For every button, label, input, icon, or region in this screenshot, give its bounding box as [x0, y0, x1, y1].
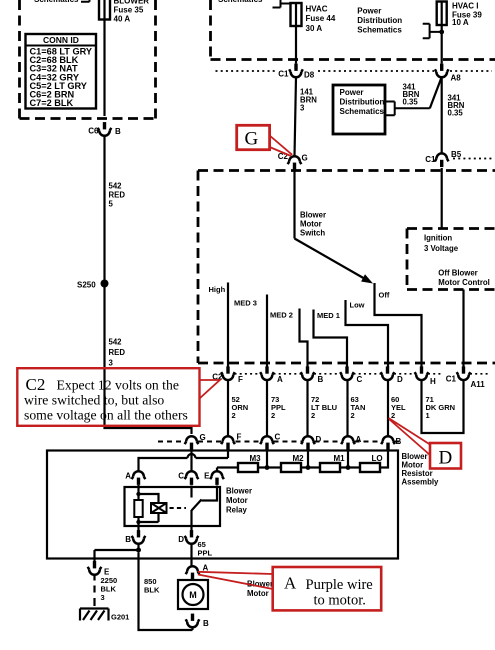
svg-text:wire switched to, but also: wire switched to, but also: [24, 393, 164, 408]
connector C2 pin H: [415, 366, 429, 380]
wire 72 LT BLU 2: [306, 380, 308, 437]
lower connector row dashed link: [158, 441, 399, 443]
svg-text:Assembly: Assembly: [402, 478, 440, 487]
svg-text:542: 542: [109, 182, 123, 191]
svg-text:Switch: Switch: [300, 229, 325, 238]
red callout box C2: [200, 380, 220, 399]
svg-text:5: 5: [109, 200, 114, 209]
wire 542 RED 3 to relay block pin G: [105, 287, 192, 434]
svg-text:Low: Low: [350, 301, 365, 310]
junction block box (relay/resistor carrier): [47, 451, 398, 559]
svg-text:1: 1: [426, 411, 430, 420]
wire C2/G into switch: [293, 170, 295, 239]
ground G201: [80, 609, 109, 621]
svg-text:HVAC: HVAC: [306, 4, 328, 13]
relay pin B: [132, 530, 146, 544]
motor connector pin B: [186, 614, 200, 628]
connector pin G (resistor assembly): [185, 436, 199, 450]
wire B5 into ignition box: [441, 168, 443, 229]
wire 65 PPL: [190, 543, 192, 567]
svg-text:C7=2 BLK: C7=2 BLK: [30, 98, 74, 108]
svg-text:C: C: [357, 375, 363, 384]
svg-text:B: B: [115, 127, 121, 136]
wire 60 YEL 2: [387, 380, 389, 437]
svg-text:H: H: [430, 377, 436, 386]
wire 71 DK GRN 1 (H to A11 loop): [422, 380, 464, 433]
wire hop over G: [188, 454, 196, 458]
svg-text:Off Blower: Off Blower: [438, 269, 477, 278]
svg-text:C1: C1: [446, 375, 457, 384]
svg-text:2: 2: [271, 411, 275, 420]
svg-text:M3: M3: [249, 454, 261, 463]
connector pin C: [260, 436, 274, 450]
connector C2 pin B: [301, 366, 315, 380]
wire off blower motor control to A11: [462, 290, 464, 368]
wire fuse35 to C6: [103, 0, 105, 116]
svg-text:2: 2: [311, 411, 315, 420]
svg-text:2: 2: [391, 411, 395, 420]
bracket stub: [273, 0, 291, 8]
svg-text:M2: M2: [292, 454, 304, 463]
wire 2250 BLK 3 (dashed): [93, 575, 95, 607]
svg-text:Motor Control: Motor Control: [438, 278, 490, 287]
svg-text:E: E: [204, 472, 210, 481]
svg-text:BLK: BLK: [144, 586, 160, 595]
junction dot: [439, 30, 444, 35]
tap wire pin C: [266, 450, 268, 468]
svg-text:Purple wire: Purple wire: [306, 577, 373, 593]
svg-text:3: 3: [109, 359, 114, 368]
svg-text:G: G: [302, 154, 308, 163]
connector C6 pin B: [98, 122, 112, 136]
connector pin E (ground lead): [88, 561, 102, 575]
svg-text:S250: S250: [77, 281, 96, 290]
svg-text:A: A: [284, 574, 297, 593]
wire fuse44 down: [295, 3, 297, 64]
fuse F39 HVAC 1 Fuse 39 10A: [437, 2, 447, 26]
svg-text:Fuse 44: Fuse 44: [306, 14, 336, 23]
svg-text:2: 2: [232, 411, 236, 420]
wire 341 BRN 0.35 (down to B5): [441, 77, 443, 154]
connector C2 pin A: [260, 366, 274, 380]
blower switch assembly dashed box: [198, 171, 495, 364]
connector C2 pin G (switch feed): [288, 156, 302, 170]
red callout box A purple wire to motor: [198, 572, 273, 589]
relay switch arm: [192, 500, 202, 511]
connector C1 pin B5: [435, 153, 449, 167]
connector C2 pin D: [381, 366, 395, 380]
red wedge to C2/G: [270, 136, 293, 157]
svg-text:M1: M1: [333, 454, 345, 463]
wire relay B to ground junction: [95, 543, 139, 563]
relay switch D leg: [190, 510, 192, 533]
switch wiper arm: [295, 239, 367, 280]
wire 341 BRN 0.35 (left, to PDS box): [430, 77, 442, 108]
svg-text:RED: RED: [109, 348, 126, 357]
svg-text:2: 2: [351, 411, 355, 420]
svg-text:C1: C1: [425, 155, 436, 164]
svg-text:Motor: Motor: [226, 496, 248, 505]
bracket from PDS box: [385, 102, 430, 116]
svg-text:LO: LO: [371, 454, 382, 463]
svg-text:0.35: 0.35: [403, 98, 419, 107]
svg-text:3: 3: [101, 593, 105, 602]
svg-text:D: D: [397, 375, 403, 384]
bracket stub: [81, 0, 90, 2]
red callout box D: [430, 443, 461, 469]
relay pin E: [210, 471, 224, 485]
svg-text:C: C: [275, 433, 281, 442]
connector C2 pin C: [340, 366, 354, 380]
svg-text:3: 3: [300, 104, 305, 113]
relay coil: [151, 503, 167, 513]
svg-text:Schematics: Schematics: [34, 0, 79, 4]
fuse F44 HVAC Fuse 44 30A: [291, 3, 302, 26]
svg-text:30 A: 30 A: [306, 24, 323, 33]
svg-text:Motor: Motor: [300, 220, 322, 229]
connector pin D: [301, 436, 315, 450]
tap wire pin D: [307, 450, 309, 468]
svg-text:3 Voltage: 3 Voltage: [424, 244, 459, 253]
svg-text:MED 2: MED 2: [270, 311, 293, 320]
svg-text:High: High: [209, 285, 226, 294]
wire 141 BRN 3: [295, 77, 297, 157]
svg-text:PPL: PPL: [198, 549, 213, 558]
wire pin G to relay pin C: [190, 450, 192, 472]
svg-text:M: M: [189, 590, 197, 600]
CONN ID table: [26, 34, 97, 109]
svg-text:C6: C6: [88, 127, 99, 136]
svg-text:Distribution: Distribution: [357, 16, 402, 25]
underhood fuse block dashed box (top right): [211, 0, 495, 60]
svg-text:G201: G201: [111, 613, 129, 622]
svg-text:to motor.: to motor.: [314, 593, 366, 609]
connector C2 row dotted line: [235, 373, 489, 375]
svg-text:Blower: Blower: [226, 487, 252, 496]
splice S250: [101, 280, 109, 288]
connector pin F: [221, 436, 235, 450]
wire fuse39 down: [441, 2, 443, 64]
svg-text:Power: Power: [340, 88, 364, 97]
svg-text:Fuse 35: Fuse 35: [114, 6, 144, 15]
svg-text:HVAC I: HVAC I: [452, 1, 479, 10]
connector row dotted line: [216, 70, 493, 72]
svg-text:10 A: 10 A: [452, 18, 469, 27]
dotted line right of B5: [453, 158, 492, 160]
svg-text:Schematics: Schematics: [340, 107, 385, 116]
svg-text:C1: C1: [278, 70, 289, 79]
svg-text:Expect 12 volts on the: Expect 12 volts on the: [57, 378, 179, 393]
ignition 3 voltage dashed box: [407, 229, 495, 290]
svg-text:D: D: [439, 448, 453, 469]
svg-text:Ignition: Ignition: [424, 234, 452, 243]
connector C1 pin D8: [289, 64, 303, 78]
Power Distribution Schematics box: [333, 85, 385, 134]
svg-text:Distribution: Distribution: [340, 98, 385, 107]
svg-text:A8: A8: [451, 74, 462, 83]
svg-text:0.35: 0.35: [448, 109, 464, 118]
connector pin A8: [435, 64, 449, 78]
svg-text:Motor: Motor: [247, 589, 269, 598]
relay coil feed wires: [139, 485, 159, 533]
connector pin A: [341, 436, 355, 450]
relay pin D: [185, 530, 199, 544]
wire: [258, 466, 281, 468]
svg-text:B: B: [318, 375, 324, 384]
connector C1 pin A11: [457, 366, 471, 380]
wire 73 PPL 2: [266, 380, 268, 437]
svg-text:542: 542: [109, 338, 123, 347]
blower motor M: [178, 580, 208, 609]
connector pin B: [381, 436, 395, 450]
wire 542 RED 5: [103, 136, 105, 280]
svg-text:Power: Power: [357, 6, 381, 15]
svg-text:B: B: [203, 619, 209, 628]
svg-text:D: D: [178, 535, 184, 544]
wire chain end to pin B: [380, 450, 388, 468]
svg-text:B: B: [125, 535, 131, 544]
svg-text:40 A: 40 A: [114, 15, 131, 24]
svg-text:some voltage on all the others: some voltage on all the others: [24, 408, 188, 423]
svg-text:Schematics: Schematics: [218, 0, 263, 4]
svg-text:G: G: [245, 129, 259, 150]
svg-text:D: D: [316, 435, 322, 444]
svg-text:MED 1: MED 1: [317, 311, 340, 320]
svg-text:Off: Off: [379, 291, 390, 300]
wire: [340, 466, 360, 468]
fuse F35 BLOWER Fuse 35 40A: [99, 0, 110, 20]
svg-text:F: F: [237, 433, 242, 442]
wire 850 BLK: [139, 553, 193, 631]
svg-text:C: C: [178, 472, 184, 481]
svg-text:F: F: [238, 375, 243, 384]
svg-text:CONN ID: CONN ID: [43, 35, 79, 45]
svg-text:Relay: Relay: [226, 506, 247, 515]
svg-text:MED 3: MED 3: [234, 299, 257, 308]
relay U1 box: [125, 487, 221, 526]
svg-text:Schematics: Schematics: [357, 25, 402, 34]
coil actuator dashed link: [170, 507, 187, 509]
red callout box G: [237, 125, 270, 149]
svg-text:A: A: [125, 472, 131, 481]
wire: [301, 466, 320, 468]
svg-text:A11: A11: [471, 380, 486, 389]
wire relay pin E to resistor chain: [217, 468, 238, 472]
svg-text:C2: C2: [26, 375, 46, 394]
wire 63 TAN 2: [346, 380, 348, 437]
wire 52 ORN 2: [227, 380, 229, 437]
svg-text:B: B: [396, 437, 402, 446]
svg-text:RED: RED: [109, 191, 126, 200]
svg-text:A: A: [277, 375, 283, 384]
connector C2 pin F: [221, 366, 235, 380]
relay pin C: [185, 471, 199, 485]
svg-text:DK GRN: DK GRN: [426, 403, 456, 412]
motor connector pin A: [186, 566, 200, 580]
svg-text:D8: D8: [304, 70, 315, 79]
relay pin A: [132, 471, 146, 485]
relay switch fixed contact: [190, 486, 192, 498]
tap wire pin A: [347, 450, 349, 468]
junction block dashed box (top left): [20, 0, 156, 119]
svg-text:A: A: [356, 435, 362, 444]
relay switch E leg: [202, 486, 218, 501]
svg-text:G: G: [200, 433, 206, 442]
off-page bracket to fuse39 wire: [423, 24, 442, 39]
relay resistor: [134, 500, 142, 517]
wire pin F to relay pin A: [139, 450, 229, 472]
svg-text:Blower: Blower: [300, 211, 326, 220]
